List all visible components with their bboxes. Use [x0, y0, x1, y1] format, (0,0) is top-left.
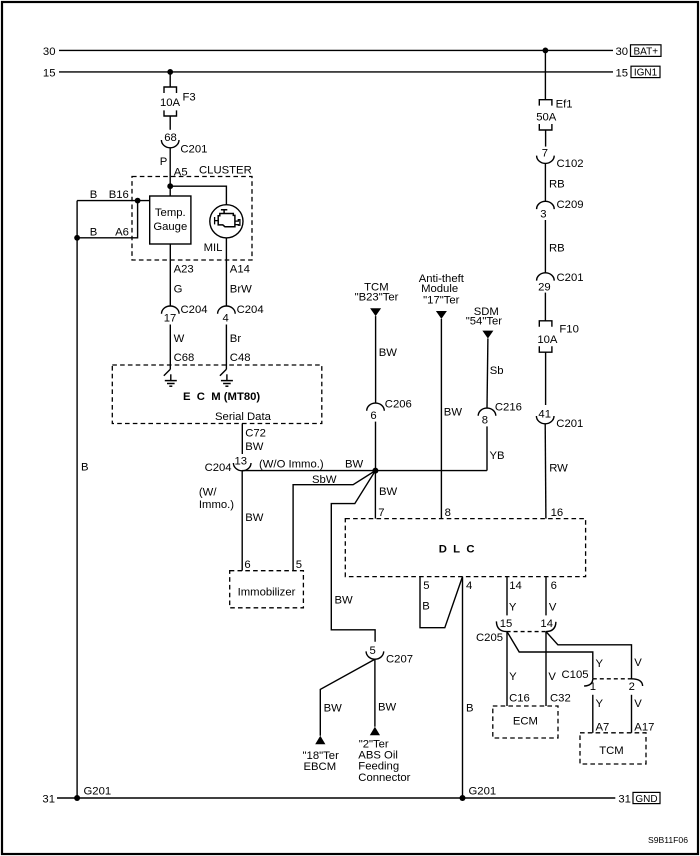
svg-text:C204: C204	[181, 304, 208, 316]
fuse F10 10A	[537, 321, 579, 352]
wire BW: drop to immobilizer pin 6	[242, 471, 264, 571]
svg-text:B: B	[422, 601, 430, 613]
svg-text:IGN1: IGN1	[634, 68, 658, 79]
wire SbW: junction to immobilizer pin 5	[293, 471, 375, 571]
svg-text:17: 17	[164, 313, 177, 325]
TCM box	[580, 733, 646, 764]
wire Y: DLC pin 14 to C205 pin 15	[507, 577, 522, 616]
svg-text:BW: BW	[245, 441, 264, 453]
svg-text:Gauge: Gauge	[153, 221, 187, 233]
ECM box (bottom)	[493, 706, 558, 738]
node: serial data junction	[372, 468, 378, 474]
svg-text:BrW: BrW	[230, 284, 252, 296]
wire BW: C207 to ABS oil feeding connector	[375, 659, 397, 727]
svg-text:RW: RW	[549, 463, 568, 475]
svg-text:Module: Module	[421, 283, 458, 295]
wire BrW: MIL A14 to connector 4 C204	[226, 238, 252, 307]
wire BW: junction diagonal to C207 branch	[331, 471, 375, 642]
svg-text:(W/: (W/	[199, 487, 217, 499]
wire BW: anti-theft module to DLC pin 8	[441, 319, 462, 519]
svg-text:W: W	[174, 333, 185, 345]
arrow from TCM	[370, 308, 381, 316]
wire B A6	[77, 201, 138, 239]
svg-text:Temp.: Temp.	[155, 207, 186, 219]
label (W/ Immo.)	[199, 487, 234, 512]
wire: line15 to fuse F3	[169, 72, 171, 87]
svg-text:C206: C206	[385, 399, 412, 411]
svg-text:BW: BW	[378, 701, 397, 713]
node: junction B16/A6	[135, 198, 141, 204]
svg-text:CLUSTER: CLUSTER	[199, 165, 252, 177]
ECM (MT80) box	[112, 365, 321, 424]
svg-text:15: 15	[616, 67, 629, 79]
svg-text:15: 15	[500, 618, 513, 630]
wire Y: C105 pin 1 to TCM A7	[593, 695, 610, 734]
wire W: connector C204 to ECM C68	[170, 325, 194, 366]
svg-text:G201: G201	[84, 786, 112, 798]
svg-text:A17: A17	[634, 721, 654, 733]
Anti-theft Module "17"Ter source label	[419, 273, 465, 306]
svg-text:15: 15	[43, 67, 56, 79]
IGN1 terminal box	[631, 66, 660, 79]
svg-text:MIL: MIL	[204, 242, 223, 254]
svg-text:ECM: ECM	[513, 716, 538, 728]
svg-text:BW: BW	[379, 347, 398, 359]
svg-text:3: 3	[540, 209, 546, 221]
node: junction on left ground riser	[74, 235, 80, 241]
svg-text:5: 5	[296, 559, 302, 571]
wire: connector C206 to junction	[375, 422, 377, 471]
svg-text:C68: C68	[174, 352, 195, 364]
svg-text:8: 8	[482, 414, 488, 426]
svg-text:RB: RB	[549, 243, 565, 255]
Immobilizer box	[230, 571, 304, 608]
svg-text:10A: 10A	[537, 334, 558, 346]
svg-text:29: 29	[538, 281, 551, 293]
svg-text:BW: BW	[245, 512, 264, 524]
wire BW: TCM to connector 6 C206	[376, 316, 398, 403]
SDM "54"Ter source label	[466, 306, 503, 328]
connector 41 C201 (cup)	[536, 408, 583, 430]
svg-text:RB: RB	[549, 179, 565, 191]
wire V: C105 pin 2 to TCM A17	[632, 695, 655, 734]
svg-text:(W/O Immo.): (W/O Immo.)	[259, 458, 324, 470]
wire: fuse Ef1 to connector 7 C102	[545, 130, 547, 147]
wire V: C205 pin 14 branch to C105 pin 2	[546, 632, 642, 679]
svg-text:C72: C72	[245, 428, 266, 440]
connector C105 (pins 1 and 2)	[562, 669, 643, 693]
wire: line 30 to fuse Ef1	[544, 50, 546, 99]
svg-text:Immobilizer: Immobilizer	[238, 587, 296, 599]
svg-text:S9B11F06: S9B11F06	[648, 835, 688, 845]
svg-text:6: 6	[244, 559, 250, 571]
ground (ECM internal, C48)	[220, 365, 233, 386]
wire P: connector C201 to cluster pin A5	[160, 148, 188, 196]
svg-text:Ef1: Ef1	[556, 99, 573, 111]
svg-text:C102: C102	[557, 158, 584, 170]
wire B: DLC pin 5 to pin 4 link	[420, 577, 463, 628]
svg-text:"B23"Ter: "B23"Ter	[355, 291, 399, 303]
svg-text:C209: C209	[557, 199, 584, 211]
svg-text:5: 5	[370, 645, 376, 657]
connector 68 C201 (cup), pin 68	[161, 132, 207, 156]
connector 7 C102 (cup)	[537, 147, 584, 170]
svg-text:B: B	[466, 703, 474, 715]
svg-text:C201: C201	[557, 272, 584, 284]
svg-text:7: 7	[378, 507, 384, 519]
svg-text:2: 2	[629, 681, 635, 693]
svg-text:30: 30	[43, 46, 56, 58]
svg-text:C48: C48	[230, 352, 251, 364]
svg-text:10A: 10A	[160, 97, 181, 109]
svg-text:B: B	[90, 189, 98, 201]
svg-text:V: V	[634, 698, 642, 710]
svg-text:8: 8	[445, 507, 451, 519]
svg-text:ABS Oil: ABS Oil	[358, 750, 398, 762]
svg-text:BAT+: BAT+	[634, 46, 659, 57]
wire B: DLC pin 4 down to G201	[463, 577, 474, 798]
svg-text:50A: 50A	[536, 112, 557, 124]
svg-text:G: G	[174, 284, 183, 296]
connector 8 C216 (dome)	[478, 402, 522, 427]
svg-text:Br: Br	[230, 333, 242, 345]
svg-text:BW: BW	[444, 407, 463, 419]
svg-text:"54"Ter: "54"Ter	[466, 316, 503, 328]
DLC box	[345, 519, 585, 577]
ground (ECM internal, C68)	[164, 365, 177, 386]
arrow from SDM	[482, 331, 493, 339]
svg-text:C105: C105	[562, 669, 589, 681]
svg-text:Connector: Connector	[358, 772, 410, 784]
svg-text:"17"Ter: "17"Ter	[423, 294, 460, 306]
svg-text:14: 14	[509, 580, 522, 592]
arrow from Anti-theft Module	[436, 311, 447, 319]
node: junction A5 inside cluster	[167, 183, 173, 189]
svg-text:C216: C216	[495, 402, 522, 414]
connector C205 (pins 15 and 14)	[476, 618, 556, 644]
svg-text:C201: C201	[180, 143, 207, 155]
svg-text:Y: Y	[509, 602, 517, 614]
connector 13 C204 (cup)	[205, 455, 251, 474]
wire B: left ground riser down to G201	[77, 201, 88, 798]
wire RB: C102 to connector 3 C209	[545, 163, 564, 201]
wire Sb: SDM to connector 8 C216	[487, 339, 504, 409]
svg-text:C205: C205	[476, 632, 503, 644]
wire BW: C207 to EBCM	[320, 659, 375, 736]
wire V: DLC pin 6 to C205 pin 14	[546, 577, 557, 616]
svg-text:C32: C32	[550, 693, 571, 705]
svg-text:G201: G201	[469, 786, 497, 798]
svg-text:C16: C16	[509, 693, 530, 705]
svg-text:13: 13	[235, 455, 248, 467]
wire: C201 to fuse F10	[544, 293, 546, 321]
svg-text:7: 7	[542, 147, 548, 159]
svg-text:EBCM: EBCM	[303, 761, 336, 773]
connector 29 C201 (dome)	[537, 272, 584, 293]
svg-text:C204: C204	[205, 462, 232, 474]
svg-text:6: 6	[551, 580, 557, 592]
svg-text:A7: A7	[596, 721, 610, 733]
wire RB: C209 to connector 29 C201	[545, 220, 564, 273]
svg-text:Immo.): Immo.)	[199, 499, 234, 511]
wire BW serial data horizontal (W/O Immo.)	[242, 458, 487, 470]
svg-text:P: P	[160, 156, 168, 168]
temp gauge G1	[150, 196, 191, 244]
svg-text:Serial Data: Serial Data	[215, 411, 272, 423]
node: junction on line 15 at x=170	[167, 69, 173, 75]
svg-text:TCM: TCM	[599, 745, 623, 757]
svg-text:F3: F3	[183, 92, 196, 104]
svg-text:SbW: SbW	[312, 474, 337, 486]
wire YB: connector C216 down to serial data line	[487, 426, 505, 470]
svg-text:A14: A14	[230, 263, 250, 275]
svg-text:Y: Y	[596, 698, 604, 710]
svg-text:V: V	[548, 671, 556, 683]
arrow to ABS oil feeding connector	[370, 727, 380, 736]
svg-text:A6: A6	[115, 226, 129, 238]
svg-text:Y: Y	[596, 658, 604, 670]
connector 5 C207 (cup)	[366, 645, 413, 665]
connector 17 C204 (dome)	[162, 304, 208, 325]
label "18"Ter EBCM	[303, 750, 340, 773]
CLUSTER box	[132, 165, 252, 260]
svg-text:68: 68	[164, 132, 177, 144]
wire RW: C201 to DLC pin 16	[545, 424, 568, 519]
wire: junction to MIL lamp	[170, 186, 226, 205]
wire: fuse F3 to connector 68 C201	[169, 116, 171, 130]
svg-text:E C M (MT80): E C M (MT80)	[183, 391, 260, 403]
bus line 15 (IGN1)	[43, 67, 628, 79]
bus line 30 (BAT+)	[43, 46, 628, 58]
svg-text:41: 41	[538, 408, 551, 420]
connector 3 C209 (dome)	[537, 199, 584, 220]
svg-text:6: 6	[370, 410, 376, 422]
wire BW: junction down to DLC pin 7	[375, 471, 397, 519]
GND terminal box	[633, 792, 660, 804]
svg-text:B: B	[90, 226, 98, 238]
svg-text:BW: BW	[379, 486, 398, 498]
svg-text:31: 31	[618, 794, 631, 806]
fuse F3 10A	[160, 87, 196, 116]
svg-text:4: 4	[466, 580, 472, 592]
wire: fuse F10 to connector 41 C201	[545, 352, 547, 405]
svg-text:5: 5	[423, 580, 429, 592]
BAT+ terminal box	[631, 45, 662, 58]
svg-text:BW: BW	[335, 595, 354, 607]
TCM "B23"Ter source label	[355, 281, 399, 303]
svg-text:BW: BW	[345, 459, 364, 471]
node: G201 junction right	[460, 786, 497, 801]
svg-text:V: V	[634, 657, 642, 669]
wire BW: ECM C72 serial data out	[242, 424, 266, 455]
svg-text:14: 14	[540, 618, 553, 630]
svg-text:D L C: D L C	[439, 544, 475, 556]
svg-text:4: 4	[223, 313, 229, 325]
wire B B16: left riser to cluster	[77, 189, 150, 201]
fuse Ef1 50A	[536, 99, 572, 130]
svg-text:GND: GND	[635, 794, 657, 805]
wire G: gauge A23 to connector 17 C204	[170, 244, 193, 306]
arrow to EBCM	[315, 736, 325, 745]
svg-text:C204: C204	[237, 304, 264, 316]
bus line 31 (GND)	[42, 794, 631, 806]
svg-text:Sb: Sb	[490, 365, 504, 377]
svg-text:30: 30	[616, 46, 629, 58]
connector 4 C204 (dome)	[218, 304, 264, 325]
svg-text:C207: C207	[386, 654, 413, 666]
svg-text:16: 16	[551, 507, 564, 519]
svg-text:1: 1	[590, 681, 596, 693]
wire Br: connector C204 to ECM C48	[226, 325, 250, 366]
label "2"Ter ABS Oil Feeding Connector	[358, 738, 410, 783]
svg-text:YB: YB	[490, 450, 505, 462]
node: G201 junction left	[74, 786, 111, 801]
svg-text:A23: A23	[174, 263, 194, 275]
svg-text:31: 31	[42, 794, 55, 806]
svg-text:Y: Y	[509, 671, 517, 683]
wire Y: C205 pin 15 branch to C105 pin 1	[507, 632, 604, 679]
svg-text:B: B	[81, 461, 89, 473]
wire V: C205 pin 14 to ECM C32	[546, 632, 571, 706]
connector 6 C206 (dome)	[367, 399, 412, 422]
svg-text:F10: F10	[559, 324, 578, 336]
svg-text:V: V	[549, 602, 557, 614]
wire Y: C205 pin 15 to ECM C16	[507, 632, 530, 706]
node: junction on line 30 at x=545	[543, 48, 549, 54]
svg-text:C201: C201	[556, 418, 583, 430]
svg-text:BW: BW	[324, 702, 343, 714]
svg-text:B16: B16	[109, 189, 129, 201]
MIL indicator lamp	[204, 205, 243, 255]
